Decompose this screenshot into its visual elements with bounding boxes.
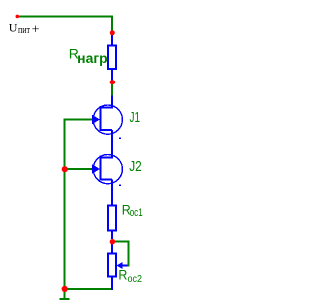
pin mark J2 source — [119, 184, 121, 186]
svg-text:R: R — [118, 266, 127, 282]
wire lead Rос2 bottom — [111, 278, 113, 291]
pin dot Rнагр bottom — [110, 80, 116, 84]
svg-text:ос2: ос2 — [128, 274, 143, 285]
label Rос1 — [122, 202, 143, 219]
label Rнагр — [69, 46, 108, 66]
label Uпит + — [9, 21, 40, 38]
svg-text:ос1: ос1 — [130, 207, 143, 219]
wire top rail — [17, 16, 113, 18]
label Rос2 — [118, 266, 142, 285]
junction dot Rос1/Rос2 — [110, 239, 115, 244]
wire gate J2 — [64, 168, 93, 170]
wire lead Rнагр bottom — [111, 70, 113, 81]
wire top-right drop — [111, 16, 113, 31]
svg-text:+: + — [32, 22, 40, 37]
resistor Rос1 — [108, 206, 116, 231]
junction dot bottom — [62, 286, 68, 292]
resistor Rнагр — [108, 45, 116, 69]
pin dot Rнагр top — [110, 30, 115, 35]
junction dot J2 gate — [62, 166, 68, 172]
svg-text:J1: J1 — [130, 109, 141, 126]
wire drain J1 — [111, 84, 113, 96]
transistor J1 — [92, 96, 123, 159]
wire lead Rос2 top — [111, 244, 113, 254]
wire lead Rос1 bottom — [111, 232, 113, 240]
node Uпит+ terminal dot — [15, 15, 19, 19]
wire left rail — [64, 119, 66, 290]
wire lead Rнагр top — [111, 35, 113, 45]
ground stub — [64, 289, 66, 299]
potentiometer Rос2 — [108, 254, 116, 277]
pin mark J1 source — [119, 137, 121, 139]
transistor J2 — [92, 155, 123, 206]
svg-text:J2: J2 — [129, 158, 142, 175]
svg-text:U: U — [9, 21, 18, 35]
wire bottom rail — [64, 288, 112, 290]
wire wiper loop — [113, 241, 130, 267]
wire wiper lead — [122, 265, 128, 267]
svg-text:нагр: нагр — [77, 51, 108, 66]
ground bar — [60, 298, 70, 300]
svg-text:пит: пит — [18, 25, 30, 36]
wiper arrow Rос2 — [117, 262, 123, 269]
wire gate J1 — [64, 119, 93, 121]
